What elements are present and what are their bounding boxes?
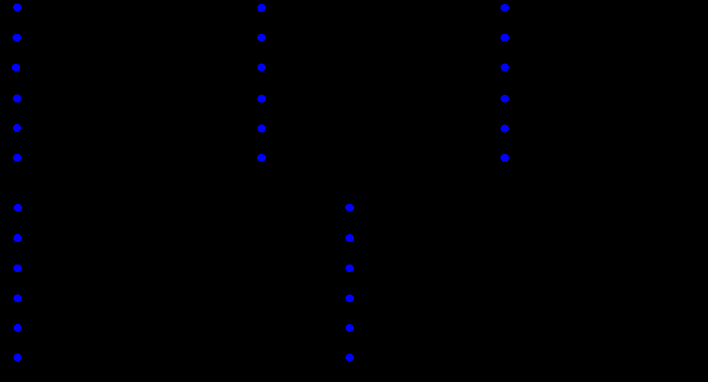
bullet dot top list col2 row5 xyxy=(258,125,266,133)
bullet dot top list col2 row2 xyxy=(257,34,266,42)
bullet dot top list col3 row5 xyxy=(501,125,509,133)
bullet dot top list col2 row1 xyxy=(257,4,265,12)
bullet dot bottom list col2 row5 xyxy=(346,324,354,332)
bullet dot top list col3 row6 xyxy=(501,154,510,162)
bullet dot top list col1 row4 xyxy=(13,95,21,103)
bullet dot bottom list col2 row4 xyxy=(346,294,354,302)
bullet dot top list col3 row3 xyxy=(501,64,509,72)
bullet dot top list col1 row1 xyxy=(13,3,22,11)
bullet dot bottom list col1 row3 xyxy=(13,264,21,272)
bullet dot bottom list col2 row3 xyxy=(346,264,354,272)
bullet dot top list col1 row3 xyxy=(12,64,21,72)
bullet dot bottom list col2 row2 xyxy=(345,234,354,242)
bullet dot top list col2 row6 xyxy=(257,154,266,162)
bullet dot bottom list col1 row5 xyxy=(14,324,22,332)
bullet dot top list col3 row2 xyxy=(501,34,510,42)
bullet dot top list col1 row5 xyxy=(13,124,21,132)
bullet dot top list col3 row1 xyxy=(501,4,510,11)
bullet dot top list col2 row4 xyxy=(257,95,266,103)
bullet dot top list col1 row2 xyxy=(12,34,21,42)
bullet dot bottom list col1 row1 xyxy=(14,204,22,212)
bullet dot bottom list col2 row6 xyxy=(346,354,354,362)
bullet dot top list col2 row3 xyxy=(257,64,266,72)
bullet dot bottom list col2 row1 xyxy=(345,204,354,212)
bullet dot top list col1 row6 xyxy=(13,154,21,162)
bullet dot bottom list col1 row6 xyxy=(13,354,21,362)
bullet dot bottom list col1 row4 xyxy=(13,294,21,302)
bullet dot top list col3 row4 xyxy=(501,95,509,103)
bullet dot bottom list col1 row2 xyxy=(13,234,22,242)
